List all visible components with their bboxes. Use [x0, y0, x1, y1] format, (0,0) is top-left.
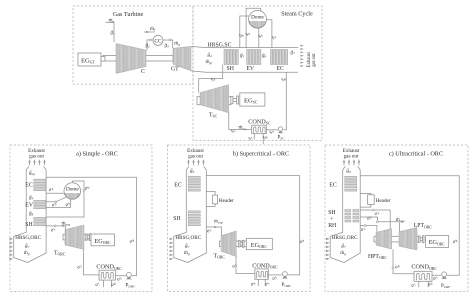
wire s5 dome to EV downcomer [258, 28, 260, 48]
pump P_ORC (c) [441, 272, 451, 289]
svg-text:HRSG,ORC: HRSG,ORC [332, 235, 358, 241]
node on o1 wire (c) [364, 225, 366, 227]
combustion chamber CC [153, 35, 163, 45]
condenser COND_ORC (c) [411, 264, 437, 282]
cooling stub out (b) [249, 279, 258, 287]
wire s8 pump to EC [284, 72, 287, 129]
exhaust gas out label (b) [187, 148, 204, 160]
turbine HPT_ORC (c) [368, 229, 392, 260]
svg-text:RH: RH [328, 223, 337, 229]
svg-text:+: + [330, 216, 333, 222]
economizer EC (a) [25, 179, 46, 191]
wire o8 pump to EC (a) [46, 177, 136, 276]
wire condenser to pump [266, 129, 278, 131]
svg-text:EV: EV [246, 66, 255, 72]
generator EG_ORC (b) [246, 238, 272, 249]
coupling T_ORC to EG (a) [85, 234, 91, 241]
wire o8 pump to EC (b) [206, 176, 299, 275]
svg-text:gas out: gas out [188, 153, 203, 159]
gas inlet arrows (b) [170, 238, 174, 260]
Gas Turbine dashed box [73, 6, 193, 84]
node on riser [55, 201, 57, 203]
wire o1 SH to HPT (c) [360, 226, 377, 233]
condenser COND_SC [248, 118, 271, 133]
svg-text:EC: EC [277, 66, 285, 72]
shaft T_SC [197, 97, 231, 105]
condenser COND_ORC (a) [96, 264, 122, 281]
node before CC [149, 39, 151, 41]
svg-text:EC: EC [25, 182, 33, 188]
turbine LPT_ORC (c) [399, 223, 432, 250]
exhaust arrows (c) [343, 159, 360, 165]
flow arrow (c) [401, 221, 404, 223]
exhaust gas out arrows (SC) [300, 45, 317, 68]
HRSG,ORC label (b) [175, 235, 201, 256]
box b) Supercritical-ORC [167, 145, 310, 291]
wire s1 SH to T_SC [199, 65, 223, 93]
box a) Simple-ORC [10, 145, 152, 291]
svg-text:c) Ultracritical - ORC: c) Ultracritical - ORC [389, 150, 443, 157]
wire header to SH (c) [360, 204, 371, 207]
wire o5 dome downcomer to EV [46, 199, 71, 207]
turbine T_ORC (b) [214, 231, 237, 260]
wire CC to GT [163, 40, 173, 48]
cooling stub in (b) [263, 279, 270, 287]
gas inlet arrows (c) [326, 238, 330, 260]
svg-text:Steam Cycle: Steam Cycle [281, 11, 313, 18]
exhaust gas out label (c) [343, 148, 360, 160]
coupling T to EG (b) [238, 240, 244, 247]
wire o6 dome steam to SH [46, 181, 84, 217]
steam drum Dome (SC) [249, 10, 267, 28]
economizer EC (b) [174, 176, 200, 191]
svg-text:SH: SH [227, 66, 235, 72]
generator EG_SC [240, 93, 265, 106]
svg-text:Dome: Dome [251, 15, 264, 21]
turbine T_ORC (a) [54, 225, 84, 257]
wire cond to pump (a) [115, 275, 126, 277]
cooling water out stub (SC) [247, 134, 254, 143]
wire o2 HPT out to RH (c) [360, 210, 390, 229]
header (c) [368, 195, 391, 205]
svg-text:Header: Header [376, 198, 391, 204]
node on o1 wire [54, 225, 56, 227]
svg-text:gas out: gas out [29, 153, 44, 159]
HRSG.SC duct [191, 43, 298, 73]
header (b) [213, 195, 235, 204]
svg-text:EC: EC [174, 182, 182, 188]
economizer EC (c) [329, 176, 356, 191]
cooling stub in (a) [110, 280, 117, 288]
svg-text:CC: CC [155, 38, 162, 44]
wire C to CC [147, 40, 153, 50]
svg-text:gas out: gas out [344, 153, 359, 159]
node o2 (c) [373, 209, 375, 211]
pump P_SC [278, 127, 286, 141]
flow arrow s2 [245, 128, 248, 130]
svg-text:Dome: Dome [66, 187, 79, 193]
evaporator EV (SC) [246, 50, 261, 72]
svg-text:HRSG,ORC: HRSG,ORC [175, 235, 201, 241]
node after CC [169, 39, 171, 41]
wire o3 RH out (c) [360, 217, 377, 222]
wire s2 turbine to condenser [229, 113, 252, 130]
evaporator EV (a) [25, 200, 46, 208]
drum Dome (a) [64, 183, 81, 200]
wire o4 LPT to condenser (c) [393, 249, 414, 273]
coupling EG_GT [101, 57, 105, 62]
wire m_org RH to LPT (c) [377, 222, 399, 232]
superheater SH (a) [25, 217, 46, 228]
wire header to SH [206, 204, 215, 207]
exhaust gas out label (a) [28, 148, 45, 160]
flow arrow (b) [215, 226, 218, 228]
wire EV riser to dome [46, 197, 66, 202]
wire o2 turbine to condenser (a) [84, 249, 100, 275]
condenser COND_ORC (b) [252, 262, 278, 279]
wire s4 EV riser to dome top [246, 8, 261, 48]
generator EG_ORC (a) [91, 234, 115, 246]
HRSG duct (a) [14, 166, 29, 262]
cooling water in stub (SC) [261, 134, 268, 144]
HRSG duct (b) [174, 166, 189, 262]
svg-text:C: C [141, 69, 145, 75]
turbine GT [171, 46, 191, 72]
HRSG,ORC label (c) [332, 235, 358, 256]
wire o8 pump to EC (c) [360, 176, 459, 275]
Steam Cycle dashed box [193, 6, 322, 141]
compressor C [116, 44, 146, 76]
wire cond to pump (b) [268, 274, 282, 276]
cooling stub in (c) [426, 280, 433, 287]
flow arrow (a) [63, 225, 66, 227]
wire o1 SH to turbine (b) [206, 227, 221, 236]
svg-text:SH: SH [328, 210, 336, 216]
wire o4 EC to dome [46, 192, 64, 194]
generator EG_GT [78, 53, 101, 66]
coupling T_SC to EG_SC [231, 96, 239, 104]
svg-text:b) Supercritical - ORC: b) Supercritical - ORC [233, 150, 289, 157]
steam turbine T_SC [200, 85, 229, 119]
svg-text:GT: GT [171, 67, 179, 73]
generator EG_ORC (c) [426, 236, 449, 248]
fuel inlet m_f [144, 26, 156, 33]
svg-text:a) Simple - ORC: a) Simple - ORC [76, 150, 118, 157]
wire o1 SH to turbine [46, 226, 65, 230]
svg-text:gas out: gas out [312, 53, 317, 67]
wire s3 EC to dome [266, 20, 272, 48]
shaft T_ORC (b) [220, 241, 248, 247]
pump P_ORC (b) [282, 272, 292, 288]
node on steam line [83, 189, 85, 191]
wire o2 turbine to condenser (b) [236, 257, 255, 274]
exhaust arrows (b) [187, 159, 204, 165]
shaft HPT-LPT (c) [374, 236, 419, 242]
cooling stub out (a) [94, 280, 104, 288]
coupling LPT to EG (c) [418, 236, 424, 243]
pump P_ORC (a) [126, 272, 136, 288]
svg-text:HRSG.SC: HRSG.SC [208, 43, 232, 49]
economizer EC (SC) [271, 50, 288, 72]
wire EC to header [206, 191, 215, 195]
svg-text:Header: Header [219, 198, 234, 204]
svg-text:HRSG,ORC: HRSG,ORC [15, 235, 41, 241]
node on m_org wire (c) [376, 221, 378, 223]
node o4 (c) [392, 267, 394, 269]
svg-text:SH: SH [173, 216, 181, 222]
exhaust arrows (a) [28, 159, 45, 165]
superheater SH (SC) [224, 50, 238, 72]
gas inlet arrows (a) [10, 238, 14, 260]
superheater SH and reheater RH (c) [328, 210, 359, 230]
HRSG duct (c) [330, 166, 345, 262]
svg-text:EV: EV [25, 202, 34, 208]
cooling stub out (c) [410, 281, 419, 288]
shaft GT train [103, 55, 173, 61]
shaft T_ORC (a) [63, 234, 91, 240]
wire cond to pump (c) [432, 274, 441, 276]
box c) Ultracritical-ORC [325, 145, 468, 291]
svg-text:EC: EC [329, 182, 337, 188]
svg-text:SH: SH [25, 222, 33, 228]
wire EC to header (c) [360, 194, 371, 196]
superheater SH (b) [173, 211, 200, 226]
wire s6 dome to SH [240, 16, 249, 48]
svg-text:Gas Turbine: Gas Turbine [113, 11, 144, 18]
HRSG,ORC label (a) [15, 235, 41, 256]
air inlet line m_a [105, 17, 114, 42]
